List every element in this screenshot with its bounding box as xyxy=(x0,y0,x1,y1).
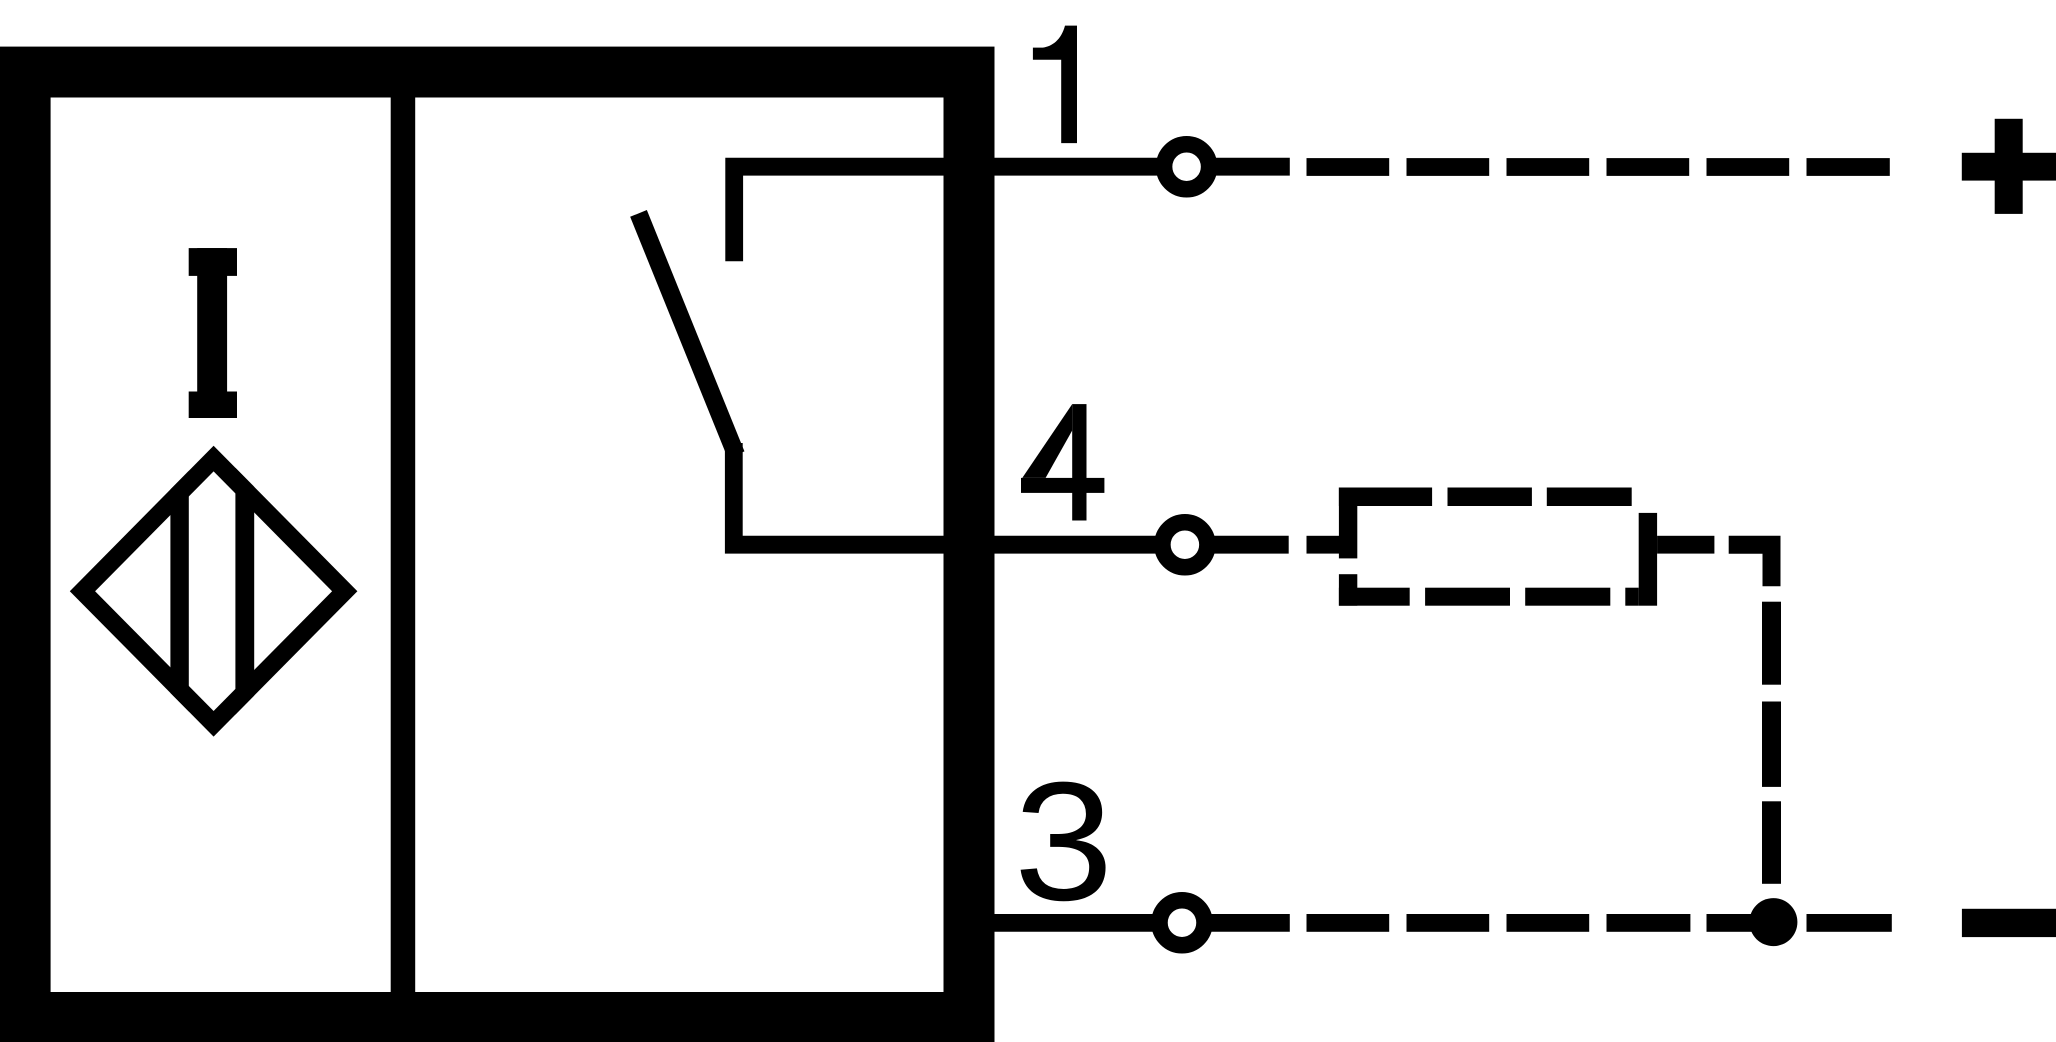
switch blade Q xyxy=(639,213,737,454)
dash from pin4 into load xyxy=(1307,536,1354,554)
load resistor (dashed box) xyxy=(1339,488,1657,606)
terminal circle pin 4 xyxy=(1162,522,1207,567)
terminal circle pin 3 xyxy=(1160,900,1205,945)
wire stub from load to corner xyxy=(1657,536,1714,554)
sensor body outline (thick box) xyxy=(0,47,995,1042)
terminal circle pin 1 xyxy=(1164,144,1209,189)
svg-text:3: 3 xyxy=(1014,746,1114,935)
minus supply symbol xyxy=(1962,909,2056,937)
dashed wire pin1 to plus xyxy=(1307,158,1890,176)
diamond chord bar left xyxy=(170,466,188,717)
divider wall between sensor cell and switch cell xyxy=(391,98,416,993)
sensing-face diamond xyxy=(70,446,358,737)
switch fixed contact + pin1 wire xyxy=(734,167,1290,262)
inductive symbol letter I xyxy=(189,248,237,418)
switch lower contact + pin4 wire xyxy=(734,443,1289,545)
pin number 1 xyxy=(1033,26,1077,144)
pin number 4 xyxy=(1021,404,1104,520)
pin3 wire xyxy=(950,914,1290,932)
junction dot xyxy=(1749,898,1797,946)
corner dash turning down xyxy=(1729,545,1772,587)
plus supply symbol xyxy=(1962,119,2056,214)
vertical dashed wire to junction xyxy=(1762,602,1781,884)
diamond chord bar right xyxy=(235,466,254,717)
dashed wire pin3 to minus xyxy=(1307,914,1892,932)
